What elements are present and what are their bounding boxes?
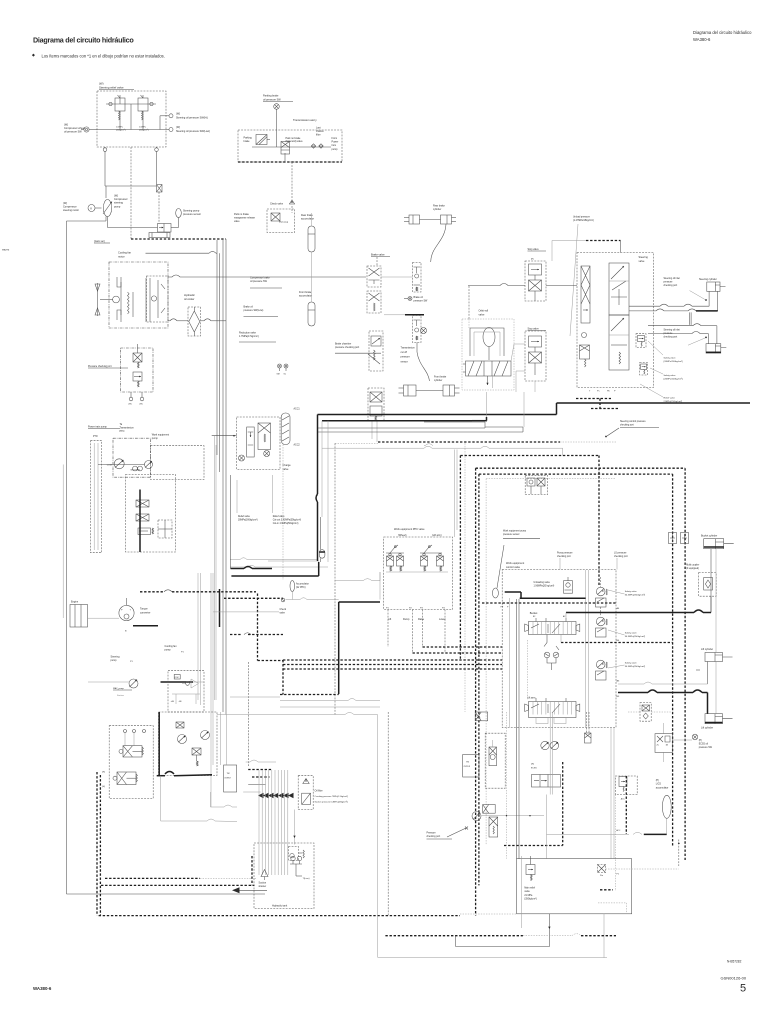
M restrictor box <box>157 185 163 193</box>
steering pump shaft heavy <box>88 681 129 683</box>
checking stub lines <box>689 312 691 325</box>
svg-text:A2: A2 <box>563 615 565 618</box>
pilot bundle y664 <box>283 664 502 666</box>
svg-text:Brake oil: Brake oil <box>244 306 254 309</box>
svg-text:(H): (H) <box>102 772 105 774</box>
wire demand to cyl1 a <box>629 305 660 307</box>
svg-text:pressure SW: pressure SW <box>699 746 713 749</box>
ECSS EPC valve box <box>485 733 505 788</box>
park brake solenoid valve <box>281 142 290 155</box>
trunk vertical v6 <box>215 445 217 700</box>
svg-text:(W): (W) <box>63 202 67 205</box>
fan control valve 2 <box>201 731 210 740</box>
svg-text:(if equipped): (if equipped) <box>686 568 699 570</box>
brake valve section mid <box>367 291 381 313</box>
work equipment pump enclosure <box>151 446 205 480</box>
LICS accumulator shape <box>662 795 671 818</box>
svg-text:Suction: Suction <box>117 694 125 697</box>
pump control box left edge <box>230 475 232 569</box>
svg-text:control valve: control valve <box>506 566 521 569</box>
work equipment enclosure inner top <box>479 473 673 475</box>
svg-text:Safety valve: Safety valve <box>625 590 638 593</box>
PPC reducing valve w2 <box>397 556 404 566</box>
svg-text:Pm: Pm <box>600 875 603 877</box>
svg-text:ACC2: ACC2 <box>294 444 301 447</box>
pump shaft line <box>98 464 145 466</box>
second loop vertical <box>320 517 322 550</box>
pilot piping enclosure left <box>334 443 336 714</box>
main relief valve box <box>517 859 632 914</box>
wire between front cylinders <box>416 390 443 392</box>
suction line left x67 <box>66 221 68 894</box>
wire fan cluster to right <box>160 776 162 821</box>
return arrows into filter <box>258 793 264 799</box>
wire pump suction <box>67 220 107 222</box>
PPC lever liftarm <box>424 545 432 553</box>
svg-text:checking port: checking port <box>664 284 678 287</box>
fan motor valve cluster bottom <box>472 812 481 821</box>
stop valve 2 elements <box>529 336 542 347</box>
leader to check port 2 <box>688 338 705 345</box>
return line bundle verticals <box>258 770 260 875</box>
drain dashed pair x97 <box>96 772 98 916</box>
ECSS block <box>655 734 673 753</box>
oil filter box <box>298 776 313 810</box>
heavy corner into work loop <box>321 421 323 517</box>
svg-text:Unloading valve: Unloading valve <box>534 582 551 584</box>
bypass valve bottom <box>289 847 299 861</box>
check block on loop lines <box>669 533 677 544</box>
gray lines y700 <box>280 700 348 702</box>
svg-text:valve: valve <box>280 613 286 615</box>
check valve CV1 <box>289 200 294 204</box>
svg-text:Diagrama del circuito hidráuli: Diagrama del circuito hidráulico <box>33 36 134 45</box>
PPC lever wheel <box>390 545 398 553</box>
svg-text:LS pressure: LS pressure <box>614 552 627 555</box>
svg-text:Unload pressure: Unload pressure <box>573 216 591 219</box>
svg-text:Hydraulic: Hydraulic <box>184 293 196 297</box>
wire solenoid drop <box>284 158 286 162</box>
svg-text:COM: COM <box>107 465 112 467</box>
ECSS pump circles <box>541 741 549 749</box>
pressure switch pair SM SL <box>278 364 282 368</box>
cutoff solenoid block <box>525 476 548 495</box>
wires to TM controller <box>220 712 222 765</box>
svg-text:Lift: Lift <box>388 618 392 621</box>
svg-text:(Wheel): (Wheel) <box>398 534 407 537</box>
heavy line A4 to bucket <box>566 612 694 614</box>
heavy pump line into valve <box>505 591 521 593</box>
svg-text:steering: steering <box>114 202 124 205</box>
svg-text:Pump pressure: Pump pressure <box>557 552 573 555</box>
heavy dashed B4 line <box>561 642 673 644</box>
svg-text:filter: filter <box>316 133 321 136</box>
PPC drop dashed P3 <box>422 610 424 648</box>
svg-text:TM: TM <box>227 773 230 775</box>
svg-text:Work equipment pump: Work equipment pump <box>503 530 527 533</box>
PTO box <box>113 438 151 477</box>
svg-text:Dump: Dump <box>403 618 410 621</box>
relief valve RV2 <box>138 98 148 111</box>
svg-text:{20MPa/200kg/cm²}: {20MPa/200kg/cm²} <box>664 360 683 363</box>
svg-text:Hydraulic tank: Hydraulic tank <box>272 905 288 908</box>
svg-text:pump: pump <box>165 649 172 652</box>
PPC drop dashed P2 <box>412 610 414 654</box>
svg-text:Transmission ass'y: Transmission ass'y <box>293 118 317 122</box>
port P left with double circle <box>84 127 89 132</box>
steering pump pressure sensor <box>176 209 182 218</box>
loop verticals from corner <box>317 415 319 495</box>
svg-text:Cracking pressure ?MPa{1.5kg/c: Cracking pressure ?MPa{1.5kg/cm²} <box>315 795 349 798</box>
suction strainer <box>261 870 268 877</box>
parking brake cylinder <box>256 135 267 145</box>
controller stub whd1 <box>248 769 272 771</box>
svg-text:Cooling fan: Cooling fan <box>165 645 178 648</box>
lift cylinder 1 <box>705 653 723 662</box>
trunk vertical v3 <box>222 239 224 712</box>
svg-text:GSN00126-00: GSN00126-00 <box>721 976 747 981</box>
PTO enclosure <box>91 441 102 553</box>
svg-text:(Gam ser): (Gam ser) <box>94 240 105 243</box>
big loop left vertical <box>377 715 379 958</box>
svg-text:pressure: pressure <box>664 281 674 284</box>
tank drain ports <box>291 856 295 860</box>
trunk vertical v1 <box>216 240 218 455</box>
svg-text:Raise: Raise <box>418 618 425 621</box>
gear pump small <box>133 466 138 471</box>
svg-text:(H): (H) <box>129 404 132 406</box>
vertical through relief box <box>520 856 522 928</box>
steering cylinder 2 <box>706 344 721 353</box>
counterbalance valve box <box>640 703 651 722</box>
foot brake valve upper <box>413 263 422 293</box>
orbit tank arrow <box>487 376 489 385</box>
line y428 <box>318 427 485 429</box>
svg-text:Diagrama del circuito hidráuli: Diagrama del circuito hidráulico <box>693 30 752 35</box>
steering pump symbol <box>129 679 138 688</box>
control valve tank lines down <box>610 728 612 859</box>
svg-text:Compressor: Compressor <box>63 206 77 209</box>
svg-text:Steering relief valve: Steering relief valve <box>99 86 124 90</box>
svg-text:Check: Check <box>280 609 287 611</box>
svg-text:Engine: Engine <box>71 602 79 604</box>
fan pump internals <box>172 693 200 695</box>
fan motor circle <box>113 296 120 303</box>
control valve box <box>502 570 616 728</box>
wire stop2 down <box>534 381 536 392</box>
second line heavy <box>322 420 472 422</box>
EPC cluster box <box>109 726 153 799</box>
check block V1 <box>158 224 172 233</box>
motor M1 circle <box>88 205 95 212</box>
brake block lower <box>368 388 384 421</box>
dashed left stub y889 <box>600 889 613 891</box>
svg-text:CNTRLR: CNTRLR <box>464 766 471 768</box>
svg-text:ACC: ACC <box>621 798 626 801</box>
hose cooler to trunk <box>201 320 204 322</box>
pm checking port <box>598 865 606 873</box>
big loop bottom <box>378 957 607 959</box>
rear brake cylinder left <box>409 215 420 224</box>
steering pump SP1 <box>103 200 111 217</box>
suction line left x63 <box>62 465 64 619</box>
svg-text:(H): (H) <box>531 259 534 261</box>
heavy line B3 <box>618 692 648 694</box>
svg-text:cylinder: cylinder <box>433 208 441 211</box>
front brake accumulator capsule <box>308 302 315 326</box>
LS regulator valves <box>136 500 149 507</box>
wire pump to valve <box>107 217 109 228</box>
svg-text:Stop valve: Stop valve <box>528 328 540 331</box>
ECSS heavy dashed drop <box>562 762 564 846</box>
svg-text:oil pressure SW: oil pressure SW <box>250 280 268 283</box>
svg-text:pressure checking port: pressure checking port <box>335 346 360 349</box>
svg-text:oil pressure SW: oil pressure SW <box>263 98 281 101</box>
link y559 <box>230 559 240 561</box>
svg-text:accumulator: accumulator <box>301 218 314 221</box>
anti drift valve <box>544 652 550 658</box>
dotted line y903 <box>598 902 626 904</box>
hose fan to cooler <box>168 320 170 322</box>
svg-text:(H): (H) <box>531 764 534 766</box>
unloading valve symbol <box>564 581 573 594</box>
trunk vertical v5 <box>214 436 216 700</box>
transmission assy box <box>238 130 342 162</box>
steering wheel <box>483 328 495 347</box>
fan motor internals <box>117 277 121 320</box>
steering cylinder 1 <box>707 282 720 291</box>
wire cyl1 ports <box>708 291 710 306</box>
svg-text:N-B57282: N-B57282 <box>727 960 742 964</box>
charge valve solenoid <box>239 455 245 461</box>
gray line y707 <box>280 706 380 708</box>
svg-text:pump: pump <box>111 659 118 662</box>
svg-text:1.7MPa{17kg/cm²}: 1.7MPa{17kg/cm²} <box>239 335 259 338</box>
shaft motor-pump <box>95 207 102 209</box>
foot brake valve lower <box>413 316 422 343</box>
trunk vertical v7 dark segment <box>219 589 221 627</box>
svg-text:WA380-6: WA380-6 <box>33 986 52 991</box>
heavy dashed y455 to x599 <box>460 455 599 457</box>
svg-text:Steering oil inlet: Steering oil inlet <box>664 277 681 280</box>
svg-text:Lower: Lower <box>439 618 446 621</box>
link y612 to check valve <box>213 611 279 613</box>
svg-text:Suction pressure 0.4MPa{43kg/c: Suction pressure 0.4MPa{43kg/cm²} <box>315 801 349 804</box>
gray line to LICS <box>547 833 601 835</box>
bucket cylinder <box>704 539 724 549</box>
dashed arrow edge <box>678 840 680 867</box>
svg-text:checking port: checking port <box>664 336 678 339</box>
svg-text:30MPa{306kg/cm²}: 30MPa{306kg/cm²} <box>238 519 258 522</box>
svg-text:valve: valve <box>639 260 645 263</box>
demand spool 2 lower <box>609 315 629 370</box>
svg-text:Steering oil pressure SW(Hi): Steering oil pressure SW(Hi) <box>176 117 208 120</box>
charge valve box <box>237 417 280 470</box>
svg-text:(H): (H) <box>699 740 702 742</box>
svg-text:ECSS: ECSS <box>531 768 537 770</box>
check valve PPC <box>281 598 285 602</box>
lift spool ports <box>535 698 537 702</box>
trunk lower v11 <box>212 573 214 765</box>
heavy return y576 <box>231 575 318 577</box>
svg-text:{16kg/cm²}: {16kg/cm²} <box>116 128 126 131</box>
hump on enclosure top <box>425 444 433 446</box>
PPC drop dashed P4 <box>444 610 446 654</box>
port SW(Hi) circle <box>169 114 173 118</box>
safety valve pair 1 <box>596 587 605 596</box>
svg-text:{1.47MPa/15kg/cm²}: {1.47MPa/15kg/cm²} <box>573 219 594 222</box>
EPC valve 1 <box>123 746 142 757</box>
controller stub w3 <box>248 784 266 786</box>
PPC valve box <box>384 537 453 610</box>
stop valve 1 elements <box>529 264 542 275</box>
wire main gallery y129 <box>97 129 166 131</box>
fan control heavy bottom <box>157 775 165 777</box>
svg-text:Parking brake: Parking brake <box>263 95 279 98</box>
wire rear cyl to brake valve <box>431 224 446 262</box>
fan control valve 1 <box>178 735 187 744</box>
svg-text:WA380-6: WA380-6 <box>693 37 711 42</box>
demand spool 1 <box>581 266 590 323</box>
brake valve drop wires <box>371 421 373 439</box>
wire between rear cylinders <box>420 219 441 221</box>
parking brake pressure switch <box>274 104 280 110</box>
svg-text:pump: pump <box>152 437 159 440</box>
orbit spool <box>466 361 512 376</box>
svg-text:{20MPa/200kg/cm²}: {20MPa/200kg/cm²} <box>664 378 683 381</box>
svg-text:Safety valve: Safety valve <box>625 662 638 665</box>
wire drop left port <box>104 151 106 186</box>
svg-text:oil pressure SW: oil pressure SW <box>64 131 82 134</box>
pilot trunk x460 <box>459 456 461 661</box>
dotted line y869 <box>606 868 679 870</box>
svg-text:Rear brake: Rear brake <box>433 205 445 208</box>
svg-text:ACC: ACC <box>616 829 621 832</box>
demand drain heavy dashed <box>576 398 611 400</box>
accumulator for PPC <box>290 581 295 592</box>
svg-text:accumulator: accumulator <box>299 295 312 298</box>
drain dashed pair x100 <box>99 775 101 916</box>
link heavy dashed y598 <box>224 597 283 599</box>
pilot piping enclosure right <box>464 443 466 712</box>
front brake cylinder left <box>404 385 417 396</box>
svg-text:checking port: checking port <box>427 835 441 838</box>
svg-text:1.96MPa{20 kg/cm²}: 1.96MPa{20 kg/cm²} <box>534 585 555 588</box>
wire PPC feed y599 <box>286 599 301 601</box>
demand valve box <box>577 253 654 388</box>
ECSS EPC valve <box>489 747 497 766</box>
wire from controller down <box>210 792 212 807</box>
trunk lower v10 <box>210 573 212 807</box>
LICS valve box <box>615 776 637 795</box>
relief valve RV1 <box>115 98 125 111</box>
fan motor supply elbow <box>193 681 204 683</box>
svg-text:Work equipment: Work equipment <box>152 434 170 437</box>
svg-text:Work equipment PPC valve: Work equipment PPC valve <box>394 528 425 531</box>
drain dashed y694 <box>280 694 339 696</box>
svg-text:checking port: checking port <box>614 555 628 558</box>
svg-text:Relief valve: Relief valve <box>238 516 251 518</box>
svg-text:Relief valve: Relief valve <box>664 398 676 400</box>
svg-text:SM: SM <box>277 374 280 376</box>
main pressure line heavy <box>318 414 557 416</box>
svg-text:Charge: Charge <box>283 464 292 467</box>
wire drop right port <box>156 151 158 184</box>
dashed vertical x388 <box>387 712 389 916</box>
svg-text:Check valve: Check valve <box>270 203 284 206</box>
safety valve pair 3 <box>596 660 605 669</box>
svg-text:Steering cylinder: Steering cylinder <box>699 278 717 281</box>
trunk lower v9 <box>200 573 202 705</box>
reduction valve block <box>369 331 383 371</box>
PPC reducing valve l2 <box>437 556 444 566</box>
link heavy dashed y591 staircase <box>140 591 164 593</box>
converter output dark <box>133 625 158 627</box>
svg-text:pump: pump <box>332 148 339 151</box>
EPC box small <box>475 712 488 721</box>
drain bundle top dashed <box>131 238 226 240</box>
svg-text:Park no brake: Park no brake <box>234 213 250 216</box>
accumulator riser <box>311 252 313 302</box>
link y567 <box>230 566 248 568</box>
svg-text:Relief valve: Relief valve <box>273 516 286 518</box>
svg-text:motor: motor <box>118 255 125 259</box>
hose fan to trunk top <box>168 276 172 278</box>
svg-text:WA/TM: WA/TM <box>2 249 9 252</box>
tank-area verticals <box>506 712 508 859</box>
svg-text:Accumulator: Accumulator <box>296 583 309 586</box>
svg-text:Steering control pressure: Steering control pressure <box>620 420 646 423</box>
work equipment pump symbol <box>145 461 153 469</box>
svg-text:Lift cylinder: Lift cylinder <box>701 648 713 651</box>
svg-text:strainer: strainer <box>259 885 267 888</box>
heavy dashed LS line <box>482 602 616 604</box>
svg-text:Bucket cylinder: Bucket cylinder <box>701 535 717 538</box>
transmission cutoff pressure SW <box>421 328 427 334</box>
svg-text:steering motor: steering motor <box>63 209 79 212</box>
main relief valve symbol <box>526 865 535 875</box>
trunk vertical v2 <box>219 253 221 472</box>
fan pump swash symbol <box>191 679 199 688</box>
wire check valve down <box>291 206 293 213</box>
svg-text:Steering oil pressure SW(Low): Steering oil pressure SW(Low) <box>176 130 210 133</box>
filter to tank line <box>294 810 296 845</box>
stop valve 2 box <box>525 331 546 381</box>
work equipment enclosure left outer <box>475 468 477 915</box>
fan check valve lower <box>133 372 142 381</box>
cooling fan motor box <box>109 262 168 328</box>
wire PPC to unload <box>379 572 381 600</box>
svg-text:Cut-out 3.43MPa{35kg/cm²}: Cut-out 3.43MPa{35kg/cm²} <box>273 519 302 522</box>
wire unload y240 <box>552 240 586 242</box>
svg-text:Multi coupler: Multi coupler <box>686 564 699 567</box>
svg-text:Lift arm: Lift arm <box>527 697 535 700</box>
controller stub w4 <box>243 791 261 793</box>
svg-text:WA2−WA8: WA2−WA8 <box>131 469 140 472</box>
svg-text:Brake chamber: Brake chamber <box>335 343 351 346</box>
LS regulator box <box>126 475 176 553</box>
svg-text:Steering: Steering <box>639 256 649 259</box>
wire relief to tank line <box>548 914 550 947</box>
wire relief internal drops <box>119 111 121 130</box>
wire demand to cyl1 b <box>629 310 656 312</box>
relief box drop line <box>603 914 605 958</box>
bucket spool ports <box>535 618 537 622</box>
work equipment enclosure outer right <box>684 468 686 860</box>
ACC drop dashed <box>282 445 284 581</box>
wire dashed to check valve <box>291 162 293 200</box>
pilot bundle y653 <box>413 652 503 654</box>
